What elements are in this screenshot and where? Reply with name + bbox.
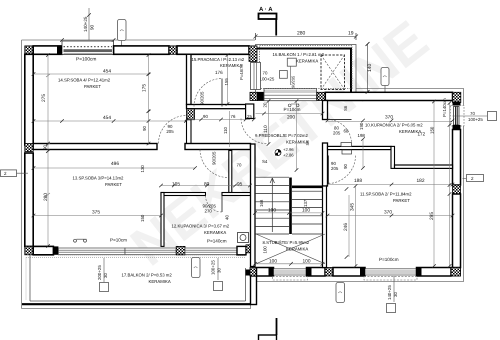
wall D praonica left: [187, 54, 192, 104]
dim praonica bottom row: [187, 119, 251, 121]
svg-text:68: 68: [344, 129, 349, 134]
svg-text:205: 205: [333, 131, 341, 136]
wall D lower stub: [187, 120, 192, 145]
section mark A-A top: [259, 6, 277, 36]
balcony 2 outline: [22, 255, 251, 304]
dim 280 top: [256, 36, 357, 38]
wall F top of right block: [250, 89, 461, 103]
svg-text:KERAMIKA: KERAMIKA: [149, 279, 171, 284]
symbol slider: [74, 239, 87, 242]
balcony1 inner dotted: [260, 46, 353, 89]
svg-text:P=100cm: P=100cm: [76, 57, 96, 63]
corridor door arc: [241, 119, 267, 144]
svg-text:110: 110: [263, 125, 269, 133]
svg-text:200: 200: [287, 114, 295, 120]
svg-text:70: 70: [470, 111, 475, 116]
corner hatch tall: [249, 46, 257, 62]
svg-text:172: 172: [418, 132, 426, 137]
symbol right of balcony: [381, 68, 389, 86]
wall segment: [33, 46, 62, 54]
dim stairs bottom: [255, 263, 323, 265]
wall G right vertical: [451, 102, 465, 277]
section mark A-A bottom: [259, 318, 277, 340]
svg-text:70: 70: [237, 163, 242, 168]
door arc down to soba3: [200, 150, 228, 178]
svg-text:105: 105: [172, 182, 180, 188]
svg-text:150: 150: [140, 214, 145, 222]
svg-text:KERAMIKA: KERAMIKA: [204, 230, 226, 235]
svg-text:P=10cm: P=10cm: [284, 107, 301, 112]
wall H bottom of right block: [250, 268, 461, 277]
svg-text:275: 275: [41, 94, 47, 102]
overhang dashed bottom: [273, 276, 308, 280]
wall segment: [114, 46, 169, 54]
svg-text:205: 205: [166, 129, 174, 134]
svg-text:KERAMIKA: KERAMIKA: [286, 247, 308, 252]
shower fixture kupaonica3: [238, 233, 249, 243]
wall stairs left: [251, 144, 256, 267]
stair center wall: [289, 178, 292, 235]
svg-text:11.SP.SOBA 2/ P=11,84m2: 11.SP.SOBA 2/ P=11,84m2: [360, 191, 412, 196]
svg-text:13.SP.SOBA 3/P=14.13m2: 13.SP.SOBA 3/P=14.13m2: [73, 176, 125, 181]
svg-text:190: 190: [359, 122, 364, 130]
svg-text:+2.96: +2.96: [283, 147, 294, 152]
dim soba2: [328, 215, 453, 217]
hatch pier below praonica: [187, 109, 195, 120]
wall I predsoblje/kupaonica2: [323, 101, 328, 120]
svg-text:182: 182: [417, 178, 425, 184]
corridor/predsoblje wall stub: [246, 104, 254, 119]
dim stairs: [255, 212, 323, 214]
svg-text:12.KUPAONICA 3/ P=3.67 m2: 12.KUPAONICA 3/ P=3.67 m2: [172, 223, 230, 228]
window W1: [62, 41, 114, 55]
kupaonica3 door: [206, 196, 223, 213]
svg-text:246: 246: [343, 223, 349, 231]
dim kupaonica2 row: [328, 121, 453, 123]
svg-text:140+25: 140+25: [387, 285, 392, 300]
balcony2 symbols: [192, 258, 201, 278]
wall E praonica bottom: [187, 105, 251, 109]
stair arrow: [271, 178, 273, 232]
dim vertical 175/90: [148, 55, 150, 145]
svg-text:70: 70: [263, 71, 268, 76]
svg-text:19: 19: [348, 31, 354, 37]
svg-text:30: 30: [103, 273, 108, 278]
dim horizontals soba4: [34, 121, 196, 216]
svg-text:110: 110: [223, 126, 228, 134]
window P=90: [264, 89, 317, 101]
svg-text:90/205: 90/205: [200, 91, 205, 105]
stairs: [255, 177, 323, 234]
bottom callouts: [393, 276, 395, 302]
praonica door arc: [194, 79, 222, 107]
svg-text:140: 140: [367, 63, 373, 72]
balcony1 small squares: [287, 58, 296, 66]
svg-text:100+25: 100+25: [260, 77, 275, 82]
balcony door P=10cm: [58, 248, 125, 254]
svg-text:16.BALKON 1 / P=2.81 m2: 16.BALKON 1 / P=2.81 m2: [273, 52, 325, 57]
svg-text:90: 90: [43, 145, 48, 150]
svg-text:S4: S4: [262, 159, 268, 164]
svg-text:454: 454: [103, 69, 111, 75]
svg-text:205: 205: [331, 166, 339, 171]
wall stairs right: [323, 186, 327, 268]
svg-text:375: 375: [92, 210, 100, 216]
corridor dim 110: [229, 111, 231, 147]
svg-text:25: 25: [247, 114, 252, 119]
svg-text:100+25: 100+25: [468, 117, 483, 122]
svg-text:496: 496: [111, 161, 119, 167]
svg-text:175: 175: [142, 84, 148, 92]
right soba2 callout: [463, 178, 467, 180]
svg-text:100: 100: [268, 208, 276, 214]
eaves outline top-left: [22, 39, 256, 41]
svg-text:100: 100: [263, 246, 268, 254]
svg-text:+2.86: +2.86: [283, 153, 294, 158]
dimension ticks: [32, 13, 455, 268]
symbol top window callout: [118, 20, 127, 41]
svg-text:150: 150: [430, 126, 435, 134]
svg-text:90: 90: [90, 24, 95, 30]
svg-text:345: 345: [350, 203, 356, 211]
svg-text:90/205: 90/205: [291, 75, 296, 88]
eaves outline balcony2 bottom: [22, 282, 251, 309]
svg-text:95: 95: [237, 182, 243, 188]
svg-text:270: 270: [205, 209, 213, 214]
svg-text:KERAMIKA: KERAMIKA: [296, 59, 318, 64]
wall kupaonica3 top: [161, 193, 206, 196]
svg-text:10.KUPAONICA 2/ P=6.05 m2: 10.KUPAONICA 2/ P=6.05 m2: [365, 122, 423, 127]
svg-text:100+25: 100+25: [211, 260, 216, 275]
right window callout: [453, 115, 488, 117]
dim vlines soba2: [349, 102, 450, 267]
balcony1 outline: [256, 49, 352, 93]
svg-text:137: 137: [303, 199, 308, 207]
hatch pier: [169, 46, 177, 54]
svg-text:P=140cm: P=140cm: [442, 98, 447, 117]
svg-text:90: 90: [203, 114, 208, 119]
symbol left callout: [1, 170, 17, 177]
stair landing diagonals: [256, 234, 325, 264]
level marker: [275, 147, 294, 158]
svg-text:P=100cm: P=100cm: [379, 257, 399, 262]
svg-text:PARKET: PARKET: [393, 198, 410, 203]
svg-text:100: 100: [303, 258, 311, 264]
svg-text:200+25: 200+25: [97, 265, 102, 280]
svg-text:80: 80: [204, 182, 210, 188]
dim line row y185 kupaonica3: [161, 185, 452, 186]
svg-text:8.STUBIŠTE/ P=5.95m2: 8.STUBIŠTE/ P=5.95m2: [263, 240, 310, 245]
corner hatch: [25, 46, 33, 54]
svg-text:S6: S6: [343, 105, 348, 111]
svg-text:A · A: A · A: [259, 6, 273, 13]
svg-text:30: 30: [393, 292, 398, 297]
svg-text:PARKET: PARKET: [84, 84, 101, 89]
soba2 door: [329, 156, 356, 184]
svg-text:PARKET: PARKET: [105, 182, 122, 187]
svg-text:100: 100: [302, 208, 310, 214]
svg-text:454: 454: [103, 115, 111, 121]
window P=140 right: [451, 106, 465, 127]
svg-text:P=10cm: P=10cm: [110, 238, 127, 243]
svg-text:280: 280: [297, 31, 306, 37]
dim 454 upper soba4: [34, 73, 149, 75]
svg-text:S8: S8: [305, 140, 310, 146]
svg-text:17.BALKON 2/ P=8.53 m2: 17.BALKON 2/ P=8.53 m2: [122, 273, 173, 278]
wall J stepped kupaonica2/soba2: [328, 146, 453, 168]
corner block: [237, 246, 246, 254]
svg-text:20: 20: [263, 102, 268, 107]
svg-text:168: 168: [259, 199, 264, 207]
niche wall right of corridor: [229, 151, 232, 193]
wall segment: [177, 46, 249, 54]
svg-text:90/205: 90/205: [212, 151, 217, 165]
eaves outline left: [21, 40, 23, 309]
wall soba4/soba3: [33, 144, 157, 150]
balcony1 X box: [321, 55, 345, 90]
wall A top-left horizontal: [25, 41, 257, 61]
svg-text:90: 90: [142, 126, 147, 131]
eaves outline bottom-right: [251, 89, 464, 282]
svg-text:40: 40: [225, 215, 230, 220]
svg-text:370: 370: [384, 210, 392, 216]
svg-text:198: 198: [358, 133, 366, 138]
hatch pier: [176, 246, 185, 254]
door arc soba3 up: [159, 116, 187, 144]
svg-text:P=48/75: P=48/75: [239, 64, 244, 80]
svg-text:P=140cm: P=140cm: [207, 239, 227, 244]
svg-text:90: 90: [343, 164, 348, 169]
svg-text:280: 280: [43, 193, 49, 201]
window P=140: [185, 248, 237, 254]
svg-text:100: 100: [269, 258, 277, 264]
wall C bottom of left block: [33, 245, 254, 255]
svg-text:130: 130: [140, 165, 145, 173]
svg-text:30: 30: [217, 268, 222, 273]
svg-text:188: 188: [354, 178, 362, 184]
balcony2 right wall: [251, 276, 257, 305]
window seg: [125, 248, 176, 254]
svg-text:76: 76: [231, 114, 236, 119]
svg-text:14.SP.SOBA 4/ P=12.41m2: 14.SP.SOBA 4/ P=12.41m2: [58, 78, 111, 83]
svg-text:155: 155: [224, 78, 229, 86]
dim 140 balcony right: [367, 44, 369, 92]
svg-text:176: 176: [215, 70, 223, 75]
wall kupaonica3 left: [161, 193, 164, 247]
kupaonica2 fixtures: [341, 143, 352, 147]
dim predsoblje: [256, 113, 323, 115]
svg-text:140+25: 140+25: [83, 16, 88, 32]
svg-text:15.PRAONICA / P=2.13 m2: 15.PRAONICA / P=2.13 m2: [192, 57, 245, 62]
kupaonica2 door: [328, 120, 352, 144]
svg-text:295: 295: [429, 212, 435, 220]
wall B left vertical: [25, 54, 33, 254]
dim vline predsoblje: [228, 55, 297, 170]
dim vertical left inside: [46, 55, 50, 246]
window praonica-balkon: [251, 63, 261, 90]
